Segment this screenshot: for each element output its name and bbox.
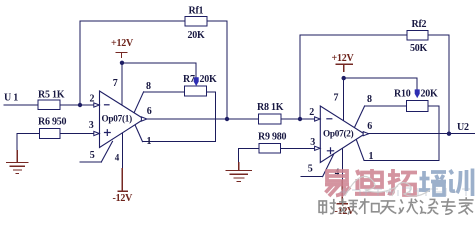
svg-text:U 1: U 1 bbox=[4, 93, 18, 104]
svg-text:Rf1: Rf1 bbox=[189, 6, 204, 17]
wire pin7 op-amp1 bbox=[121, 63, 123, 106]
wire op-amp2 output to U2 bbox=[369, 133, 475, 135]
resistor Rf2 body bbox=[407, 30, 428, 40]
op-amp U1 Op07(1) triangle bbox=[100, 91, 145, 148]
wire pin8 op-amp2 to R10 left bbox=[365, 105, 407, 107]
svg-text:+12V: +12V bbox=[332, 53, 355, 64]
junction node +12V op-amp1 bbox=[120, 61, 124, 65]
watermark logo char tuo (red) bbox=[388, 169, 417, 195]
svg-text:7: 7 bbox=[113, 78, 118, 89]
wire pin5 stub op-amp1 bbox=[80, 161, 101, 163]
node U1 input wire bbox=[4, 104, 38, 106]
junction node Rf1/output bbox=[225, 117, 229, 121]
op-amp1 minus sign bbox=[104, 104, 110, 106]
wire pin7 op-amp2 bbox=[343, 78, 345, 121]
svg-text:-12V: -12V bbox=[113, 193, 134, 204]
pin 2 input arrowhead op-amp1 bbox=[94, 103, 100, 107]
wire pin1 diagonal op-amp2 bbox=[356, 140, 364, 161]
pin 3 input arrowhead op-amp1 bbox=[94, 131, 100, 135]
svg-text:R5 1K: R5 1K bbox=[38, 89, 65, 100]
wire pin8 diagonal op-amp2 bbox=[354, 106, 364, 128]
watermark logo char xun (blue) bbox=[450, 169, 473, 197]
watermark logo char di (red) bbox=[355, 169, 385, 194]
svg-text:3: 3 bbox=[310, 137, 315, 148]
wire R8 to op-amp2 pin2 bbox=[281, 118, 315, 120]
wire R10 right to pin1 op-amp2 bbox=[364, 106, 439, 160]
trimmer wiper arrow R10 bbox=[415, 89, 420, 98]
svg-text:R8 1K: R8 1K bbox=[257, 102, 284, 113]
op-amp U2 Op07(2) triangle bbox=[320, 106, 364, 163]
svg-text:2: 2 bbox=[90, 93, 95, 104]
resistor R8 body bbox=[259, 114, 282, 124]
wire pin4 op-amp1 to -12V bbox=[121, 132, 123, 168]
op-amp2 plus sign bbox=[327, 147, 334, 154]
resistor Rf1 body bbox=[185, 16, 207, 26]
junction node +12V op-amp2 bbox=[342, 76, 346, 80]
op-amp1 plus sign bbox=[104, 129, 111, 136]
svg-text:20K: 20K bbox=[200, 74, 218, 85]
svg-text:R7: R7 bbox=[183, 74, 195, 85]
pin 6 output arrowhead op-amp2 bbox=[363, 132, 369, 136]
wire Rf2 right leg down to output bbox=[428, 35, 449, 134]
svg-text:R9 980: R9 980 bbox=[258, 131, 286, 142]
svg-text:2: 2 bbox=[309, 107, 314, 118]
watermark signature swirl bbox=[345, 176, 430, 196]
wire pin4 op-amp2 to -12V bbox=[341, 148, 343, 180]
watermark logo char pei (blue) bbox=[419, 171, 446, 195]
wire +12V branch to R10 wiper bbox=[344, 78, 418, 89]
watermark tagline char she bbox=[319, 199, 336, 215]
wire +12V branch to R7 wiper bbox=[122, 63, 196, 78]
resistor R9 body bbox=[259, 144, 281, 154]
svg-text:8: 8 bbox=[146, 81, 151, 92]
wire op-amp1 output line bbox=[147, 118, 259, 120]
svg-text:20K: 20K bbox=[421, 89, 439, 100]
watermark tagline char tian bbox=[380, 201, 396, 214]
svg-text:8: 8 bbox=[367, 94, 372, 105]
wire Rf2 feedback left leg bbox=[300, 35, 407, 119]
trimmer wiper arrow R7 bbox=[194, 77, 199, 86]
watermark tagline char pin bbox=[339, 198, 358, 214]
ground symbol middle bbox=[226, 162, 253, 182]
wire Rf1 feedback left leg bbox=[80, 21, 185, 105]
svg-text:R6 950: R6 950 bbox=[38, 117, 66, 128]
wire R5 to op-amp pin2 bbox=[60, 104, 94, 106]
wire pin8 diagonal op-amp1 bbox=[134, 92, 144, 114]
watermark tagline char zhuan bbox=[441, 198, 456, 214]
svg-text:R10: R10 bbox=[394, 88, 411, 99]
ground symbol left bbox=[6, 150, 29, 174]
svg-text:Op07(1): Op07(1) bbox=[102, 114, 133, 124]
svg-text:Op07(2): Op07(2) bbox=[323, 129, 354, 139]
svg-text:50K: 50K bbox=[410, 43, 428, 54]
pin 3 input arrowhead op-amp2 bbox=[315, 146, 321, 150]
watermark tagline char she2 bbox=[420, 199, 438, 214]
watermark tagline char he bbox=[359, 198, 379, 214]
wire Rf1 right leg down to output bbox=[207, 21, 227, 119]
svg-text:1: 1 bbox=[147, 136, 152, 147]
svg-text:6: 6 bbox=[367, 121, 372, 132]
pin 6 output arrowhead op-amp1 bbox=[141, 117, 147, 121]
watermark tagline char jia bbox=[458, 197, 473, 214]
svg-text:3: 3 bbox=[89, 120, 94, 131]
junction node at R5/pin2/Rf1 bbox=[78, 103, 82, 107]
watermark logo char yi (red) bbox=[325, 171, 350, 196]
svg-text:1: 1 bbox=[369, 151, 374, 162]
-12V supply bar op-amp1 bbox=[117, 168, 128, 191]
resistor R7 body (trimmer) bbox=[185, 86, 207, 96]
pin 2 input arrowhead op-amp2 bbox=[315, 117, 321, 121]
wire ground to R6 bbox=[17, 134, 39, 151]
svg-text:6: 6 bbox=[147, 106, 152, 117]
wire ground to R9 bbox=[239, 148, 259, 162]
wire R7 right to pin1 op-amp1 bbox=[143, 92, 216, 142]
wire pin5 stub op-amp2 bbox=[301, 176, 323, 178]
-12V supply bar op-amp2 bbox=[337, 180, 348, 204]
svg-text:5: 5 bbox=[308, 163, 313, 174]
+12V supply bar op-amp1 bbox=[115, 52, 127, 58]
junction node R8/pin2/Rf2 bbox=[298, 117, 302, 121]
svg-text:20K: 20K bbox=[188, 30, 206, 41]
watermark faint secondary row bbox=[340, 188, 470, 196]
resistor R6 body bbox=[40, 129, 61, 139]
watermark tagline char xian bbox=[398, 198, 417, 214]
svg-text:4: 4 bbox=[115, 152, 120, 162]
wire pin5 diagonal op-amp1 bbox=[101, 141, 112, 162]
wire R9 to op-amp2 pin3 bbox=[281, 147, 316, 149]
+12V supply bar op-amp2 bbox=[335, 64, 353, 72]
svg-text:7: 7 bbox=[334, 92, 339, 103]
wire pin5 diagonal op-amp2 bbox=[323, 154, 334, 177]
svg-text:5: 5 bbox=[90, 150, 95, 161]
resistor R5 body bbox=[38, 100, 60, 110]
wire R6 to op-amp1 pin3 bbox=[60, 133, 94, 135]
resistor R10 body (trimmer) bbox=[407, 101, 429, 112]
svg-text:+12V: +12V bbox=[111, 38, 134, 49]
junction node Rf2/output U2 bbox=[447, 132, 451, 136]
wire pin1 diagonal op-amp1 bbox=[135, 125, 143, 142]
svg-text:Rf2: Rf2 bbox=[412, 19, 427, 30]
wire pin8 op-amp1 to R7 left bbox=[144, 91, 185, 93]
op-amp2 minus sign bbox=[326, 118, 332, 120]
svg-text:U2: U2 bbox=[457, 122, 469, 133]
